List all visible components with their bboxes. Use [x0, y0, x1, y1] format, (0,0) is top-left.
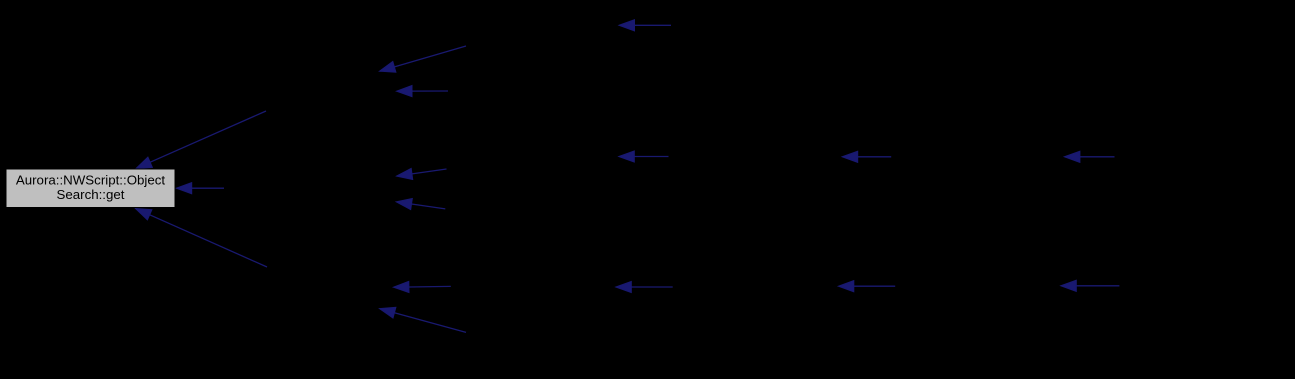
svg-text:Aurora::NWScript::Object: Aurora::NWScript::Object — [16, 173, 166, 188]
arrow e5 — [619, 151, 669, 162]
arrow e6 — [842, 151, 891, 162]
arrow e9 — [176, 183, 224, 194]
arrow e13 — [616, 281, 673, 292]
svg-text:Search::get: Search::get — [56, 187, 124, 202]
arrow e2 — [380, 46, 467, 72]
arrow e14 — [838, 281, 895, 292]
arrow e12 — [393, 281, 450, 292]
arrow e8 — [397, 168, 447, 179]
arrow e15 — [1061, 280, 1120, 291]
arrow e1 — [619, 20, 671, 31]
arrow e3 — [397, 86, 449, 97]
arrow e4 — [136, 111, 266, 169]
arrow e11 — [136, 209, 268, 268]
arrow e7 — [1064, 151, 1114, 162]
node Aurora::NWScript::ObjectSearch::get (highlighted) — [6, 169, 175, 208]
arrow e10 — [396, 199, 445, 210]
arrow e16 — [380, 307, 467, 332]
